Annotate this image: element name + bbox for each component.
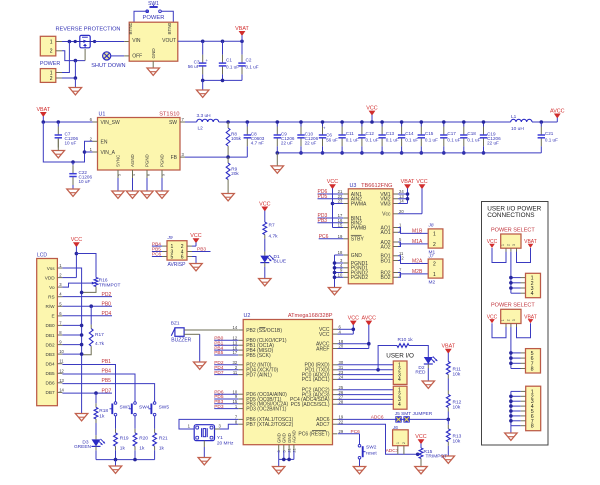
junction [400,120,404,124]
wire [146,178,148,191]
junction [406,192,410,196]
junction [42,120,46,124]
svg-text:VBAT: VBAT [36,107,50,113]
resistor R7 4.7k [263,222,278,256]
net label PB5 [62,378,154,401]
wire [95,41,130,43]
junction [80,291,84,295]
junction [299,120,303,124]
junction [509,276,513,280]
junction [509,395,513,399]
wire PD1 [338,369,394,371]
svg-text:TRIMPOT: TRIMPOT [99,282,121,288]
junction [68,40,72,44]
junction [74,59,78,63]
svg-text:C17: C17 [447,131,456,136]
svg-text:REVERSE PROTECTION: REVERSE PROTECTION [56,26,121,32]
capacitor C12 [358,122,379,153]
svg-text:C1: C1 [226,57,232,62]
svg-text:TRIMPOT: TRIMPOT [426,454,448,460]
power flag VBAT [36,107,50,122]
capacitor C9 [274,122,295,153]
svg-text:0.1 uF: 0.1 uF [467,138,480,143]
power flag VCC [398,179,428,214]
svg-text:VIN: VIN [132,38,141,44]
svg-text:PB5: PB5 [214,350,223,356]
svg-text:BO1: BO1 [380,258,390,264]
wire trimpot bottom [82,287,96,293]
svg-text:RS: RS [48,295,55,300]
svg-text:C12: C12 [366,131,375,136]
wire top rail [219,121,511,123]
svg-text:10 uF: 10 uF [65,141,77,146]
jumper POWER SELECT 2 [491,303,535,324]
power flag VCC [71,237,82,268]
svg-text:SW3: SW3 [120,404,131,410]
wire [511,277,526,279]
svg-text:CONNECTIONS: CONNECTIONS [487,212,534,219]
svg-text:FB: FB [171,155,178,161]
wire [74,78,76,88]
junction [509,414,513,418]
junction [509,286,513,290]
resistor R8 105k [226,122,241,157]
ground [112,191,124,198]
svg-text:0.1 uF: 0.1 uF [447,138,460,143]
svg-text:29: 29 [339,429,344,434]
junction [80,324,84,328]
net label PD6 [318,189,344,195]
svg-text:PB1: PB1 [102,359,112,365]
wire GND chain [335,255,344,288]
svg-text:12: 12 [59,368,64,373]
LED D1 BLUE [260,254,286,279]
wire [62,41,75,43]
trimpot R15 TRIMPOT [415,434,447,466]
wire [184,334,200,362]
wire [333,227,344,229]
svg-text:20: 20 [339,344,344,349]
wire BO1 to M2A [398,256,428,264]
svg-text:POWER: POWER [40,61,60,67]
svg-text:PD2: PD2 [102,292,112,298]
ground [75,414,87,421]
wire [511,368,526,370]
power flag VCC [190,233,201,246]
svg-text:20 MHz: 20 MHz [217,441,234,447]
wire [398,194,408,204]
svg-text:VBAT: VBAT [235,26,249,32]
svg-text:SW5: SW5 [159,404,170,410]
microcontroller U2 ATmega168/328P [233,313,344,452]
svg-text:4: 4 [531,291,534,297]
wire [76,254,96,278]
svg-text:VCC: VCC [327,179,338,185]
capacitor C13 [378,122,399,153]
net label ADC6 [338,414,448,420]
svg-text:2: 2 [402,442,406,444]
svg-text:DB0: DB0 [45,323,55,328]
svg-text:19: 19 [338,234,343,239]
net label PB0 [62,301,112,307]
wire crystal ground [203,441,205,458]
crystal Y1 20 MHz [194,425,234,447]
svg-text:VCC: VCC [319,332,330,338]
net label PC6 [152,252,162,258]
wire VOUT rail [178,40,242,42]
svg-text:VIN_A: VIN_A [101,150,116,156]
junction [509,399,513,403]
svg-text:BTN0: BTN0 [167,22,172,34]
wire [161,178,163,191]
capacitor C11 [338,122,359,153]
wire [185,121,197,123]
svg-text:Y1: Y1 [217,435,223,441]
wire XTAL1 [179,419,238,429]
svg-text:M2: M2 [429,279,436,285]
svg-text:20k: 20k [231,171,239,176]
wire [276,153,278,166]
svg-text:0.1 uF: 0.1 uF [405,138,418,143]
resistor R10 1k [378,337,428,370]
net label M1A [412,239,423,245]
svg-text:DB1: DB1 [45,333,55,338]
svg-text:DB5: DB5 [45,371,55,376]
junction [114,458,118,462]
junction [352,328,356,332]
junction [509,409,513,413]
junction [221,40,225,44]
junction [360,151,364,155]
net label PD5 [318,194,344,200]
ground [222,194,234,201]
ground [52,151,64,158]
svg-text:R20: R20 [139,436,148,442]
junction [83,150,87,154]
svg-text:VM3: VM3 [380,201,391,207]
wire [115,460,117,466]
power flag VBAT [524,314,537,323]
svg-text:20: 20 [399,209,404,214]
svg-text:PB4: PB4 [102,369,112,375]
svg-text:4.7 nF: 4.7 nF [251,141,264,146]
svg-text:6: 6 [181,255,184,261]
connector POWER bottom (2-pin) [40,69,62,83]
junction [75,252,79,256]
svg-text:PD3: PD3 [214,404,224,410]
wire [511,282,526,284]
svg-text:10k: 10k [453,438,461,444]
svg-text:ST1S10: ST1S10 [159,112,179,118]
regulator U1 ST1S10 [90,112,185,179]
svg-text:2: 2 [433,262,436,268]
ground [422,381,434,388]
junction [540,120,544,124]
resistor R13 10k [446,419,461,456]
svg-text:SW4: SW4 [139,404,150,410]
wire bottom rail [96,459,155,461]
wire [161,11,173,22]
net label PB4 U2 [214,345,238,351]
junction [509,351,513,355]
svg-text:L2: L2 [198,125,204,131]
net label PB3 [318,218,344,224]
wire [333,203,344,205]
wire FB net [185,156,247,158]
svg-text:56 uF: 56 uF [188,64,200,69]
svg-text:SW2: SW2 [366,444,377,450]
switch SW2 reset [358,434,377,467]
wire [492,323,506,338]
net label ADC7 [386,448,399,454]
svg-text:AVCC: AVCC [362,315,377,321]
svg-text:8: 8 [531,424,534,430]
svg-text:4: 4 [398,377,401,383]
wire PC4 [338,398,394,400]
wire DB3 [62,353,81,355]
net label PB3 [192,246,211,252]
power flag VBAT [401,179,415,204]
power flag VCC [487,239,498,248]
svg-text:R21: R21 [159,436,168,442]
svg-text:1k: 1k [120,445,126,451]
capacitor C1 [219,41,239,80]
svg-text:13: 13 [59,378,64,383]
junction [240,40,244,44]
capacitor C18 [460,122,481,153]
svg-text:0.1 uF: 0.1 uF [425,138,438,143]
junction [482,151,486,155]
switch SW3 [110,402,131,416]
svg-text:AGND: AGND [130,154,135,167]
junction [370,120,374,124]
wire [511,362,526,364]
svg-text:10: 10 [59,349,64,354]
power flag VBAT [524,239,537,248]
wire [511,352,526,354]
junction [509,404,513,408]
wire [85,151,93,153]
svg-text:VCC: VCC [366,105,377,111]
motor driver U3 TB6612FNG [338,183,405,284]
junction [367,342,371,346]
wire gate net [62,49,85,61]
capacitor C6 [319,122,338,153]
wire bottom rail [203,79,242,81]
svg-text:2: 2 [50,49,53,55]
svg-text:R18: R18 [99,408,108,414]
svg-text:ADC7: ADC7 [316,422,330,428]
junction [89,304,93,308]
svg-text:C21: C21 [545,131,554,136]
junction [509,356,513,360]
ground [328,288,340,295]
svg-text:POWER SELECT: POWER SELECT [491,227,535,233]
svg-text:11: 11 [233,370,238,375]
svg-text:VIN_SW: VIN_SW [101,120,120,126]
ground [415,467,427,474]
wire BO2 to M2B [398,273,428,278]
capacitor C2 [238,41,258,80]
svg-text:2: 2 [433,242,436,248]
svg-text:USER I/O: USER I/O [386,352,414,359]
junction [133,458,137,462]
junction [287,458,291,462]
resistor R17 4.7k [83,306,105,355]
inductor L1 10 uH [511,114,532,132]
junction [333,276,337,280]
svg-text:C18: C18 [467,131,476,136]
junction [400,151,404,155]
ground [198,458,210,465]
svg-text:1: 1 [433,272,436,278]
net label PD7 U2 [214,370,238,376]
net label PB5 U2 [214,350,238,356]
capacitor C8 [244,122,265,157]
svg-text:1k: 1k [99,413,105,419]
junction [226,120,230,124]
wire [134,11,146,22]
svg-text:14: 14 [59,387,64,392]
svg-text:AVCC: AVCC [550,108,565,114]
LED D3 GREEN [74,419,105,460]
svg-text:R10 1k: R10 1k [398,337,414,343]
svg-text:0.1 uF: 0.1 uF [386,138,399,143]
wire [517,323,531,338]
junction [80,333,84,337]
wire PD0 [338,364,394,366]
svg-text:VCC: VCC [190,233,201,239]
junction [201,79,205,83]
svg-text:8: 8 [531,367,534,373]
wire PC2 [338,389,394,391]
svg-text:M1B: M1B [412,229,423,235]
resistor R11 10k [446,362,461,395]
wire [57,139,59,151]
wire PC1 [338,378,394,380]
wire Vss to ground bus [62,268,81,414]
svg-text:PC6: PC6 [351,429,361,435]
svg-text:ADC7: ADC7 [386,448,399,454]
power flag VCC [366,105,377,122]
net label PD4 [62,311,112,317]
wire [532,121,557,123]
svg-text:OFF: OFF [132,53,142,59]
junction [80,352,84,356]
capacitor C3 [188,41,209,80]
junction [282,458,286,462]
junction [80,343,84,347]
ground [505,433,517,440]
net label PB4 [62,369,135,402]
connector J8 motor 1 [428,222,443,255]
ground [156,191,168,198]
svg-text:Vcc: Vcc [382,212,391,218]
connector user I/O top (4-pin) [393,361,407,384]
svg-text:22 uF: 22 uF [487,141,499,146]
capacitor C14 [398,122,419,153]
svg-text:BLUE: BLUE [274,259,287,265]
net label M2B [412,269,423,275]
power flag VCC [487,314,498,323]
wire [517,248,531,263]
svg-text:0.1 uF: 0.1 uF [366,138,379,143]
svg-text:10 uF: 10 uF [79,179,91,184]
svg-text:SYNC: SYNC [116,155,121,167]
svg-text:17: 17 [233,350,238,355]
net label M2A [412,259,423,265]
svg-text:1: 1 [433,231,436,237]
svg-text:PB5: PB5 [102,378,112,384]
junction [462,151,466,155]
svg-text:ADC6: ADC6 [371,414,384,420]
power flag VCC [259,201,270,222]
transistor Q1 reverse protection MOSFET [56,26,121,47]
svg-text:AGND: AGND [292,430,297,443]
junction [509,362,513,366]
svg-text:BO2: BO2 [380,275,390,281]
regulator block U4 power switch circuit [128,22,178,68]
wire PC0 [338,374,394,376]
wire AO1 to M1B [398,228,428,234]
net label PC6 [319,234,344,240]
svg-text:1: 1 [50,39,53,45]
resistor R19 1k [114,416,129,460]
net label PD3 U2 [214,404,238,410]
junction [71,160,75,164]
svg-text:C2: C2 [246,57,252,62]
svg-text:VCC: VCC [416,179,427,185]
svg-text:PD3 (OC2B/INT1): PD3 (OC2B/INT1) [246,406,287,412]
svg-text:AO1: AO1 [380,230,390,236]
junction [340,120,344,124]
svg-text:C15: C15 [425,131,434,136]
svg-text:AREF: AREF [316,346,329,352]
wire AO2 to M1A [398,242,428,247]
ground [271,166,283,173]
svg-text:R19: R19 [120,436,129,442]
svg-text:4.7k: 4.7k [269,234,279,240]
junction [299,151,303,155]
svg-text:PWMA: PWMA [351,201,367,207]
svg-text:PB3: PB3 [197,246,206,252]
buzzer BZ1 [171,320,192,343]
svg-text:3: 3 [512,319,516,321]
power flag VBAT [235,26,249,42]
svg-text:2: 2 [507,244,511,246]
ground [67,189,79,196]
svg-text:STBY: STBY [351,237,365,243]
power flag VBAT [441,344,455,362]
svg-text:Vss: Vss [47,266,55,271]
svg-text:PC5 (ADC5/SCL): PC5 (ADC5/SCL) [291,402,330,408]
net label PD3 [318,213,344,219]
ground [141,191,153,198]
junction [442,151,446,155]
inductor L2 3.3 uH [197,113,219,131]
svg-text:R17: R17 [95,332,104,338]
svg-text:PGND2: PGND2 [351,275,368,281]
wire ground bus [511,391,526,433]
wire select bus [506,324,517,369]
net label PD6 U2 [214,389,238,395]
resistor R21 1k [153,416,168,460]
junction [333,261,337,265]
power flag AVCC [550,108,565,122]
wire [117,178,119,191]
junction [94,391,98,395]
svg-text:PB5 (SCK): PB5 (SCK) [246,353,271,359]
